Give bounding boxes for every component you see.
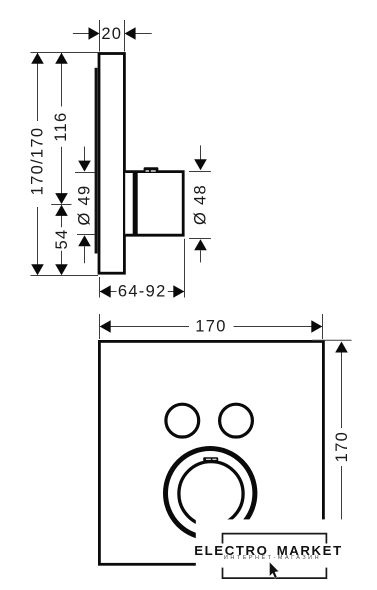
svg-text:64-92: 64-92 [118,283,167,301]
svg-text:116: 116 [52,111,70,141]
svg-text:Ø 48: Ø 48 [191,184,209,225]
svg-text:170: 170 [195,318,226,336]
svg-text:54: 54 [53,229,71,250]
svg-text:ИНТЕРНЕТ-МАГАЗИН: ИНТЕРНЕТ-МАГАЗИН [224,555,321,561]
svg-text:170: 170 [333,431,351,462]
svg-text:170/170: 170/170 [28,127,46,196]
svg-text:20: 20 [101,25,122,43]
svg-text:Ø 49: Ø 49 [76,185,94,226]
